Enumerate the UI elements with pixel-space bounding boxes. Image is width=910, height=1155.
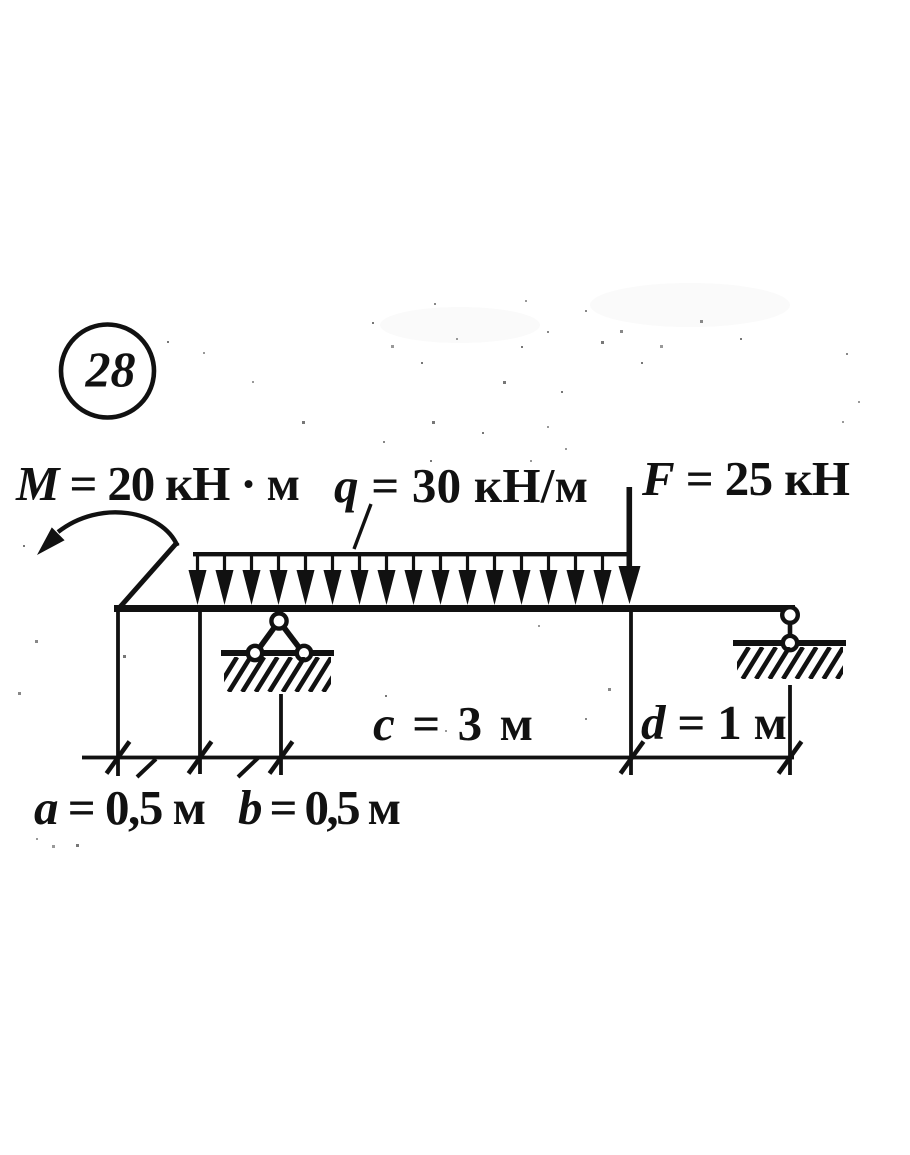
- svg-text:b = 0,5 м: b = 0,5 м: [238, 780, 401, 835]
- svg-text:M = 20 кН · м: M = 20 кН · м: [15, 456, 300, 511]
- svg-text:c = 3 м: c = 3 м: [373, 696, 533, 751]
- svg-text:F = 25 кН: F = 25 кН: [641, 451, 850, 506]
- svg-text:a = 0,5 м: a = 0,5 м: [34, 780, 206, 835]
- svg-text:d = 1 м: d = 1 м: [641, 695, 787, 750]
- svg-text:28: 28: [85, 341, 136, 397]
